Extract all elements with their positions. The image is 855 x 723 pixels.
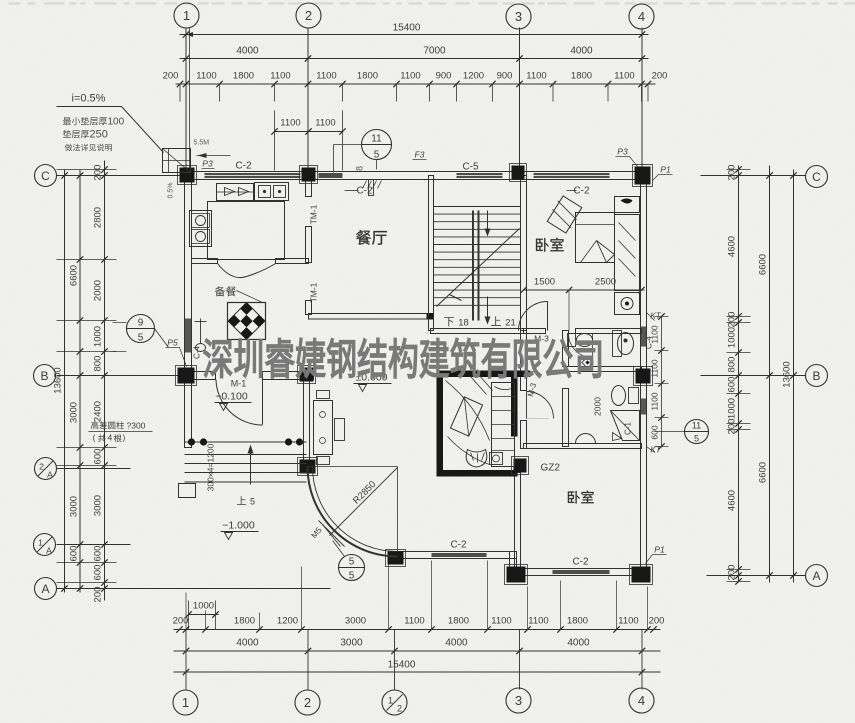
porch right wall	[304, 376, 310, 463]
bath interior dim chain	[661, 317, 663, 447]
curve radius line	[330, 468, 398, 536]
axis bubble 3 bottom	[506, 688, 531, 713]
bedroom1 wardrobe strip	[615, 197, 640, 213]
porch column note	[91, 421, 124, 429]
column curve top	[300, 460, 316, 474]
note line 2	[63, 130, 89, 138]
bedroom1 bed	[576, 213, 615, 263]
flue box	[163, 149, 191, 173]
master bed	[492, 383, 515, 467]
staircase break line	[437, 229, 520, 307]
column axis1-B	[178, 368, 195, 384]
axis bubble 4 top	[629, 4, 654, 29]
axis bubble 1/2 bottom	[382, 690, 407, 715]
right dimension chains	[701, 165, 806, 585]
staircase treads	[434, 207, 521, 306]
left wall window C-4 band	[185, 319, 191, 353]
living table set	[314, 401, 333, 455]
label up 5	[237, 496, 246, 505]
left outer chain 13600	[64, 170, 66, 593]
axis B line left	[57, 375, 185, 377]
pantry curtain opening	[218, 264, 276, 278]
column axis2-B	[300, 368, 314, 382]
master bedroom thick wall right	[511, 377, 518, 437]
bottom dimension chains	[173, 561, 665, 690]
exterior left wall	[185, 176, 192, 448]
top dim line small segments	[176, 83, 656, 85]
bottom dim line 15400	[174, 671, 661, 673]
staircase central rail	[472, 211, 474, 321]
curved wall R2850 double arc	[308, 467, 398, 557]
porch steps	[185, 441, 307, 443]
column GZ2	[514, 459, 527, 473]
lower bath toilet	[612, 386, 626, 406]
porch up arrow	[250, 449, 252, 485]
bedroom1 bottom wall segments	[524, 329, 546, 334]
axis bubble 2 bottom	[295, 690, 320, 715]
lower bath shower	[611, 411, 640, 441]
master bedroom thick wall bottom	[437, 470, 518, 477]
decorative tile inlay	[228, 303, 266, 340]
column axis3-C	[512, 166, 525, 180]
detail circle 11/5 top	[362, 130, 392, 160]
master chair	[466, 450, 487, 468]
master rug rotated	[450, 397, 482, 436]
right wall window C-4 band	[641, 327, 646, 347]
door M-1 arc	[262, 380, 264, 425]
axis bubble 3 top	[506, 4, 531, 29]
right inner chain	[738, 166, 740, 583]
axis bubble 2/A left	[35, 458, 57, 480]
bottom dim line 4000/3000/4000/4000	[174, 650, 661, 652]
bath bottom wall	[524, 444, 642, 449]
column curve end	[388, 552, 404, 565]
top dim line 15400	[180, 34, 649, 36]
door M-3 top	[547, 302, 549, 331]
detail circle 9/5	[127, 315, 155, 343]
bottom wall living room with window C-2	[397, 552, 517, 559]
bath left wall	[563, 331, 569, 367]
column axis4-B	[636, 369, 651, 384]
column axis1-C	[180, 168, 195, 183]
master small table	[490, 453, 503, 465]
watermark company name	[204, 338, 601, 378]
interior wall kitchen/pantry	[192, 259, 218, 264]
left dimension chains	[53, 161, 331, 603]
eave arrow	[197, 155, 231, 157]
column axis4-A	[632, 567, 651, 583]
nested top dim 1100/1100	[275, 131, 343, 133]
axis bubble A right	[806, 565, 828, 587]
axis A line left	[57, 588, 331, 590]
label up-21	[491, 316, 501, 325]
note line 3	[65, 144, 112, 151]
top wall window C-5 (dark band)	[457, 173, 503, 178]
axis B line right	[701, 375, 806, 377]
bottom wall bedroom with window C-2	[515, 569, 645, 576]
top wall window C-2 right (dark band)	[534, 173, 610, 178]
lower bath basin	[576, 434, 596, 444]
interior wall below stairs	[431, 329, 524, 334]
axis C line left	[57, 175, 185, 177]
left mid chain	[79, 170, 81, 593]
upper bath drain	[582, 357, 593, 368]
column axis4-C	[635, 167, 651, 185]
axis bubble A left	[35, 578, 57, 600]
pantry label	[215, 286, 236, 296]
right wall lower band	[641, 399, 646, 415]
B-axis wall left segment	[185, 372, 216, 380]
label down-18	[444, 317, 454, 326]
stair left wall	[429, 176, 434, 331]
upper bath basin	[613, 331, 622, 357]
axis bubble 1/A left	[34, 534, 56, 556]
column axis2-C	[302, 168, 316, 182]
axis bubble B left	[34, 365, 56, 387]
corridor left wall	[521, 331, 527, 391]
stair right wall	[521, 176, 527, 331]
axis 1/A line left	[57, 544, 131, 546]
interior wall kitchen/dining vertical	[306, 180, 312, 197]
nested bottom dim 1000	[189, 614, 219, 616]
bottom dim line small segments	[174, 629, 661, 631]
bedroom1 dim 1500/2500	[524, 289, 645, 291]
upper bath toilet	[568, 334, 576, 347]
axis bubble B right	[806, 365, 828, 387]
floor drain symbol	[200, 319, 202, 344]
faint scanned text band at very top	[9, 2, 855, 5]
wall jog connector	[510, 552, 517, 572]
dining room label	[356, 230, 387, 245]
top dim line 4000/7000/4000	[180, 58, 649, 60]
scan noise overlay	[0, 0, 1, 1]
axis bubble 2 top	[296, 3, 321, 28]
bath divider wall	[566, 367, 642, 372]
kitchen side stove	[190, 211, 212, 247]
column axis3-A	[507, 567, 526, 583]
bedroom2 label	[568, 491, 594, 504]
top dimension chains	[163, 23, 668, 171]
axis 2/A line left	[57, 468, 131, 470]
master curtains/lines	[446, 381, 490, 441]
kitchen sink double basin	[255, 183, 289, 201]
interior wall dining bottom	[309, 314, 434, 320]
curve corner guide lines	[308, 466, 398, 468]
axis bubble 4 bottom	[629, 688, 654, 713]
bedroom1 label	[536, 238, 564, 252]
B-axis wall right segment (door M-1 gap)	[263, 372, 314, 380]
top wall window C-2 left (dark band)	[205, 173, 301, 178]
exterior right wall	[641, 176, 647, 569]
axis bubble C right	[806, 166, 828, 188]
axis bubble 1 bottom	[173, 690, 198, 715]
bedroom1 blanket diamond	[546, 195, 584, 234]
porch round columns	[188, 438, 195, 445]
kitchen stove on top wall	[217, 184, 254, 201]
staircase up/down arrows	[487, 211, 489, 235]
axis A line right	[707, 575, 806, 577]
exterior top wall	[185, 172, 648, 180]
kitchen island counter	[208, 202, 285, 260]
left inner chain	[104, 161, 106, 601]
porch pier	[179, 484, 196, 498]
axis C line right	[701, 175, 806, 177]
right mid chain	[769, 166, 771, 583]
detail circle 11/5 right	[685, 420, 709, 444]
note line 1	[63, 117, 107, 125]
door on curve	[319, 521, 345, 547]
top wall small window band	[319, 173, 343, 178]
right outer chain 13600	[793, 170, 795, 583]
leader dash before C-2 labels	[345, 190, 359, 192]
master bedroom thick wall left	[437, 371, 444, 477]
master bedroom thick wall top	[437, 371, 531, 378]
bedroom2 left wall	[515, 473, 521, 569]
axis bubble C left	[35, 165, 57, 187]
wall stub below top window	[369, 180, 374, 196]
upper bath door arc	[569, 334, 593, 358]
axis bubble 1 top	[174, 3, 199, 28]
detail circle 5/5	[339, 555, 365, 581]
